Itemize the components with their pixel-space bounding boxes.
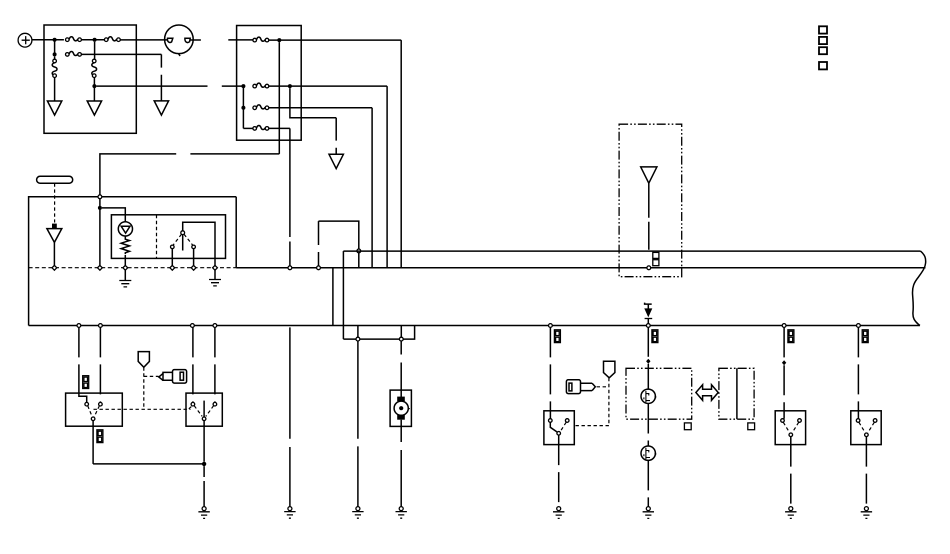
fuse box 1 (under-hood fuse/relay box) (44, 25, 136, 133)
unit bottom edge (29, 325, 920, 327)
pin diamond D (170, 265, 175, 270)
double arrow (696, 385, 718, 401)
wire drop 79 (78, 327, 80, 393)
wire vertical from row3 to bus (371, 108, 373, 268)
box C terminal 1 (549, 419, 553, 423)
wire row4 drop to main unit (289, 128, 291, 266)
wire drop 784 upper (783, 327, 785, 358)
box C common contact (557, 432, 561, 436)
wire gauge feed inside (99, 199, 101, 266)
wire link rows 2-3-4 (242, 86, 244, 128)
wire box C to ground (558, 435, 560, 506)
airbag module box (driver) (626, 368, 692, 419)
connector circle gauge feed (98, 195, 102, 199)
ground GB6 (785, 507, 796, 519)
fuse box 2 (dash fuse box) (237, 26, 302, 141)
box D dashes (783, 422, 798, 432)
ground G3 triangle (154, 101, 168, 115)
fuse F2 (104, 37, 120, 42)
buckle switch box C (544, 411, 574, 445)
wire box E to ground (865, 437, 867, 507)
connector circle bus 648 (646, 324, 650, 328)
box R terminal 1 (191, 402, 195, 406)
box C fixed arm (550, 422, 557, 432)
option square 2 (748, 423, 755, 430)
wire squib1 down (647, 404, 649, 447)
wire motor to ground (400, 426, 402, 506)
diode D1 (47, 224, 62, 243)
antenna unit box (619, 124, 682, 277)
connector circle bus 550 (549, 324, 553, 328)
torn harness edge (912, 251, 925, 325)
wire squib2 to ground (647, 460, 649, 506)
wire row2 to corner (81, 53, 161, 55)
main harness bus solid (236, 267, 925, 269)
fuse F1 (66, 37, 82, 42)
wire drop 358 lower (357, 341, 359, 507)
node dot box2 row2 left (241, 84, 245, 88)
connector C858 (862, 330, 868, 343)
wire to ground G4 (335, 118, 337, 154)
connector circle floor L (356, 337, 360, 341)
splice diamond (646, 359, 650, 364)
box R terminal 2 (213, 402, 217, 406)
wire battery to fuse box (32, 39, 64, 41)
wire diode to pin (53, 242, 55, 266)
buckle switch box E (851, 411, 881, 445)
connector C79 (83, 376, 89, 389)
SRS indicator lamp (118, 222, 132, 236)
box L terminal 1 (85, 402, 89, 406)
wire to fuse box 2 (228, 39, 253, 41)
box R switch dashes (194, 406, 213, 417)
wire row2 branch drop (290, 88, 336, 118)
instrument cluster inner box (111, 215, 225, 259)
wire contact L to pin (171, 249, 173, 266)
4 connector squares (top right) (819, 26, 827, 69)
wire row1 to corner (269, 39, 401, 41)
ground GB7 (861, 507, 872, 519)
earth ground E1 (119, 270, 131, 287)
ground GB4 (396, 507, 407, 519)
wire drop 290 (289, 327, 291, 506)
pin diamond A (52, 265, 57, 270)
wire floor R stub (400, 326, 402, 338)
box L switch dashes (88, 406, 100, 417)
wire drop 401 to motor (400, 341, 402, 390)
wire alternator right stub (190, 39, 201, 41)
wire lamp branch (102, 208, 125, 222)
ground GB8 (643, 507, 654, 519)
door switch box L (66, 393, 123, 426)
key link dashes L (144, 367, 159, 409)
squib 1 (641, 389, 655, 403)
wire dashed to bus connector (318, 221, 320, 266)
ground GB1 (198, 507, 209, 519)
splice diamond 784 (782, 360, 786, 365)
fuse F4 (253, 37, 269, 42)
box E terminal 1 (856, 419, 860, 423)
key symbol R (566, 380, 595, 394)
wire box D to ground (790, 437, 792, 507)
connector circle floor R (399, 337, 403, 341)
antenna connector circle (647, 266, 651, 270)
antenna lead wire (648, 183, 650, 250)
node dot box2 row3 left (241, 106, 245, 110)
box E dashes (859, 422, 874, 432)
wire vertical from row1 to bus (400, 40, 402, 268)
wire row1 dot down (94, 42, 96, 60)
wire row1-row2 link (54, 40, 56, 55)
connector circle unit 215 (213, 324, 217, 328)
box R actuator line (203, 401, 205, 417)
wire coil L2 to ground (93, 78, 95, 102)
fuse F3 (66, 51, 82, 56)
lock linkage dashed (94, 406, 193, 409)
ground GB5 (553, 507, 564, 519)
gauge assembly box outline (29, 197, 237, 326)
wire row2 to corner (269, 85, 387, 87)
connector C550 (554, 330, 560, 343)
switch S1 contact L (171, 245, 175, 249)
connector circle unit 79 (77, 324, 81, 328)
pin diamond C (123, 265, 128, 270)
wire contact R to pin (193, 249, 195, 266)
wire drop 192 (192, 327, 194, 402)
dashed connector bus (29, 267, 237, 269)
coil L2 (92, 59, 97, 77)
node dot box2 row2 right (288, 84, 292, 88)
fuse F5 (253, 83, 269, 88)
box D common contact (789, 433, 793, 437)
ground GB2 (284, 507, 295, 519)
wire row4 to drop (269, 127, 290, 129)
airbag inflator box (719, 368, 754, 419)
box E common contact (865, 433, 869, 437)
seat belt reminder pill (37, 176, 73, 183)
wire row3 to corner (269, 107, 372, 109)
wire splice to ground (203, 466, 205, 506)
key cylinder pentagon R (604, 361, 615, 378)
wire vertical from row2 to bus (386, 86, 388, 268)
connector C648 (652, 330, 658, 343)
noise suppressor diode (645, 303, 653, 324)
antenna symbol (641, 167, 657, 183)
tweeter motor (390, 390, 411, 426)
wire fuse2 to alternator (120, 39, 167, 41)
unit right edge (332, 268, 334, 326)
wire tap to fuse box 2 (96, 85, 243, 87)
wire box R common down (203, 421, 205, 462)
key cylinder pentagon L (138, 352, 149, 368)
box D terminal 2 (798, 419, 802, 423)
wire between fuses (81, 39, 104, 41)
ground GB3 (352, 507, 363, 519)
node dot row2 (53, 52, 57, 56)
buckle switch box D (775, 411, 805, 445)
wire common run to splice (93, 463, 204, 465)
box L common contact (91, 417, 95, 421)
battery (18, 33, 32, 47)
wire box L common down (92, 421, 94, 464)
door switch box R (186, 393, 222, 426)
switch S1 contact R (192, 245, 196, 249)
floor harness strip top (343, 250, 920, 252)
pin diamond E (191, 265, 196, 270)
connector circle on strip top (357, 249, 361, 253)
wire floor L stub (357, 326, 359, 338)
wire drop to SRS main (647, 327, 649, 356)
switch S1 arm (182, 235, 184, 251)
node dot row1 left (53, 38, 57, 42)
connector jog wire (319, 221, 359, 249)
box R common contact (202, 417, 206, 421)
connector circle bus 318 (317, 266, 321, 270)
box D terminal 1 (781, 419, 785, 423)
coil L1 (52, 56, 57, 77)
wire drop 784 lower (783, 365, 785, 419)
connector circle unit 192 (191, 324, 195, 328)
dashed divider (156, 215, 158, 259)
wire below strip-top connector (358, 253, 360, 268)
splice dot (202, 462, 206, 466)
wire corner down at 161 (160, 54, 162, 100)
connector circle bus 290 (288, 266, 292, 270)
box C terminal 2 (565, 419, 569, 423)
switch S1 frame (183, 222, 215, 266)
node dot box2 row1 (277, 38, 281, 42)
wire drop 100 (99, 327, 101, 402)
squib 2 (641, 446, 655, 460)
fuse F7 (243, 125, 268, 130)
floor connector box (343, 326, 414, 340)
antenna connector squares (653, 252, 659, 265)
connector circle unit 100 (99, 324, 103, 328)
box C dashes (561, 422, 567, 431)
connector circle bus 858 (857, 324, 861, 328)
key link dashes R (574, 378, 609, 426)
ground G1 triangle (47, 101, 61, 115)
wire jog inside box L (79, 393, 87, 402)
wire box2 to gauge feed (100, 154, 279, 196)
ground G2 triangle (87, 101, 101, 115)
box E terminal 2 (873, 419, 877, 423)
fuse F6 (253, 105, 269, 110)
pin diamond B (98, 265, 103, 270)
wire drop 215 (214, 327, 216, 402)
connector C93 (97, 430, 103, 443)
node dot lamp branch (98, 206, 102, 210)
floor harness strip left edge (342, 251, 344, 339)
switch S1 pivot (181, 231, 185, 235)
node dot coil L2 tap (92, 84, 96, 88)
connector circle bus 784 (782, 324, 786, 328)
wire resistor to pin (124, 255, 126, 266)
pin diamond F (213, 265, 218, 270)
alternator (165, 25, 194, 56)
key symbol L (159, 370, 187, 384)
wire coil L1 to ground (54, 78, 56, 102)
wire drop 858 (857, 327, 859, 418)
wire splice to airbag box (647, 364, 649, 389)
switch S1 dashed contacts (173, 234, 192, 245)
wire box2 row1 drop (278, 42, 280, 154)
ground G4 triangle (329, 154, 343, 168)
node dot row1 right (93, 38, 97, 42)
box L terminal 2 (99, 402, 103, 406)
wire drop 550 (549, 327, 551, 418)
earth ground E2 (209, 270, 221, 286)
resistor R1 coil (121, 236, 129, 254)
dashed link pill to diode (54, 183, 56, 222)
connector C784 (788, 330, 794, 343)
option square 1 (684, 423, 691, 430)
